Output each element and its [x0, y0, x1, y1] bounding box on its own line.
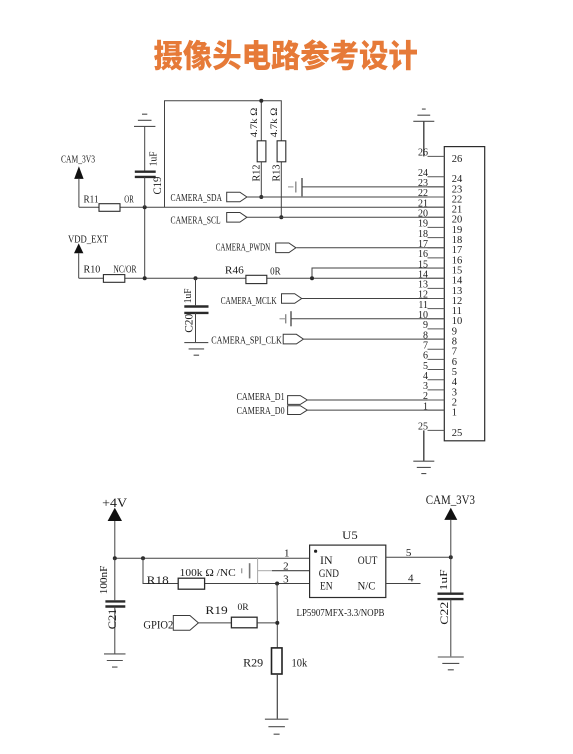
- wire R46 to pin15: [310, 268, 444, 280]
- wire N/C stub: [386, 583, 421, 585]
- svg-text:CAMERA_D1: CAMERA_D1: [237, 392, 285, 403]
- svg-text:4.7k Ω: 4.7k Ω: [250, 108, 260, 138]
- IC U5 LP5907 body: [310, 528, 386, 598]
- svg-text:0R: 0R: [270, 267, 281, 278]
- svg-text:GPIO2: GPIO2: [143, 618, 173, 632]
- svg-text:25: 25: [452, 428, 463, 439]
- port CAMERA_PWDN: [216, 242, 445, 253]
- connector pin 23: [418, 178, 462, 195]
- connector pin 16: [418, 249, 462, 266]
- connector pin 18: [418, 229, 462, 246]
- svg-text:1uF: 1uF: [183, 288, 194, 303]
- power flag +4V: [102, 495, 128, 558]
- svg-text:IN: IN: [320, 555, 333, 567]
- series capacitor (pin 10): [280, 311, 445, 326]
- connector pin 24: [418, 168, 463, 185]
- connector pin 14: [418, 269, 463, 286]
- connector pin 4: [423, 371, 458, 388]
- svg-text:LP5907MFX-3.3/NOPB: LP5907MFX-3.3/NOPB: [297, 608, 385, 619]
- svg-text:CAMERA_PWDN: CAMERA_PWDN: [216, 242, 271, 253]
- svg-text:CAMERA_D0: CAMERA_D0: [237, 406, 285, 417]
- resistor R19 0R: [205, 603, 277, 628]
- connector pin 7: [423, 340, 457, 357]
- port GPIO2: [143, 616, 231, 632]
- svg-text:VDD_EXT: VDD_EXT: [68, 234, 108, 246]
- U5 pin 4 label: [408, 573, 414, 585]
- svg-text:R19: R19: [205, 603, 227, 617]
- svg-text:R12: R12: [250, 165, 262, 182]
- connector pin 26: [418, 148, 462, 165]
- ground (below R29): [265, 719, 289, 734]
- svg-text:N/C: N/C: [358, 581, 376, 593]
- svg-text:100nF: 100nF: [99, 565, 110, 594]
- svg-text:26: 26: [452, 154, 463, 165]
- svg-text:R13: R13: [270, 164, 282, 181]
- connector pin 13: [418, 280, 462, 297]
- resistor R13 4.7k: [270, 108, 286, 220]
- resistor R46 0R: [225, 265, 281, 284]
- connector pin 9: [423, 320, 457, 337]
- connector pin 11: [418, 300, 462, 317]
- ground (below C21): [104, 654, 126, 667]
- series capacitor (GND row): [242, 563, 250, 578]
- U5 pin 3 label: [283, 574, 289, 586]
- power flag CAM_3V3: [61, 155, 95, 208]
- svg-text:CAMERA_SPI_CLK: CAMERA_SPI_CLK: [211, 336, 282, 347]
- svg-text:C21: C21: [105, 609, 119, 630]
- svg-text:U5: U5: [342, 528, 358, 542]
- wire U5 GND link: [258, 557, 310, 583]
- svg-text:3: 3: [283, 574, 289, 586]
- port CAMERA_D0: [237, 406, 445, 417]
- resistor R11 0R: [79, 193, 444, 211]
- wire C20 branch: [194, 276, 198, 305]
- svg-text:C19: C19: [152, 176, 164, 194]
- U5 pin 1 label: [284, 548, 290, 560]
- svg-text:100k Ω /NC: 100k Ω /NC: [180, 567, 236, 579]
- port CAMERA_MCLK: [221, 294, 445, 307]
- connector J1 body: [444, 147, 484, 441]
- svg-text:CAMERA_SCL: CAMERA_SCL: [171, 215, 221, 226]
- series capacitor (pin 23): [288, 178, 444, 196]
- capacitor C22 1uF: [437, 557, 464, 656]
- U5 pin 5 label: [406, 547, 412, 559]
- connector pin 12: [418, 290, 462, 307]
- svg-text:R18: R18: [147, 573, 169, 587]
- svg-text:NC/OR: NC/OR: [113, 264, 136, 275]
- svg-text:R29: R29: [243, 655, 263, 669]
- svg-text:1: 1: [284, 548, 290, 560]
- wire top pull-up loop: [165, 99, 282, 208]
- resistor R12 4.7k: [250, 108, 266, 199]
- svg-text:R46: R46: [225, 265, 244, 277]
- connector pin 1: [423, 401, 457, 418]
- svg-text:CAMERA_SDA: CAMERA_SDA: [171, 193, 223, 204]
- capacitor C21 100nF: [99, 558, 126, 653]
- port CAMERA_SPI_CLK: [211, 334, 444, 346]
- svg-text:C22: C22: [437, 602, 451, 625]
- svg-text:CAMERA_MCLK: CAMERA_MCLK: [221, 296, 277, 307]
- connector pin 10: [418, 310, 462, 327]
- U5 pin 2 label: [283, 560, 289, 572]
- svg-text:C20: C20: [184, 314, 196, 333]
- port CAMERA_SDA: [171, 192, 445, 204]
- ground (below pin 25): [413, 430, 434, 473]
- svg-text:GND: GND: [319, 568, 339, 580]
- svg-text:1uF: 1uF: [438, 569, 450, 590]
- wire +4V rail: [113, 556, 310, 560]
- resistor R29 10k: [243, 648, 307, 719]
- ground (above pin 26): [413, 109, 434, 156]
- svg-text:CAM_3V3: CAM_3V3: [426, 492, 475, 507]
- ground (below C20): [184, 343, 208, 356]
- power flag CAM_3V3 (output): [426, 492, 475, 557]
- svg-text:10k: 10k: [292, 655, 308, 669]
- svg-text:26: 26: [418, 148, 428, 159]
- svg-text:+4V: +4V: [102, 495, 128, 510]
- connector pin 5: [423, 361, 457, 378]
- label LP5907MFX-3.3/NOPB: [297, 608, 385, 619]
- svg-text:CAM_3V3: CAM_3V3: [61, 155, 95, 166]
- svg-text:R10: R10: [84, 263, 101, 275]
- svg-text:EN: EN: [320, 581, 333, 593]
- svg-text:1: 1: [423, 401, 428, 412]
- connector pin 22: [418, 188, 462, 205]
- connector pin 25: [418, 422, 462, 439]
- connector pin 8: [423, 330, 457, 347]
- connector pin 3: [423, 381, 457, 398]
- wire OUT to CAM_3V3: [386, 555, 453, 559]
- svg-text:OUT: OUT: [358, 555, 378, 567]
- connector pin 17: [418, 239, 462, 256]
- power flag VDD_EXT: [68, 234, 108, 279]
- port CAMERA_D1: [237, 392, 445, 404]
- svg-text:0R: 0R: [238, 603, 250, 613]
- resistor R10 NC/OR: [79, 263, 445, 282]
- wire EN branch: [275, 582, 279, 648]
- capacitor C19 1uF: [135, 151, 164, 207]
- title text 摄像头电路参考设计: [154, 39, 417, 70]
- svg-text:4.7k Ω: 4.7k Ω: [270, 108, 280, 138]
- svg-text:2: 2: [283, 560, 289, 572]
- wire rail tie: [143, 205, 147, 280]
- svg-text:25: 25: [418, 422, 428, 433]
- resistor R18 100k/NC: [143, 558, 310, 589]
- svg-text:1uF: 1uF: [149, 151, 160, 166]
- connector pin 2: [423, 391, 457, 408]
- ground (above C19): [134, 114, 155, 170]
- svg-text:4: 4: [408, 573, 414, 585]
- connector pin 19: [418, 219, 462, 236]
- connector pin 20: [418, 209, 462, 226]
- svg-text:1: 1: [452, 408, 457, 419]
- svg-text:OR: OR: [124, 194, 134, 205]
- connector pin 21: [418, 198, 462, 215]
- ground (below C22): [438, 657, 464, 670]
- connector pin 6: [423, 351, 457, 368]
- port CAMERA_SCL: [171, 213, 445, 227]
- svg-text:R11: R11: [84, 193, 99, 205]
- connector pin 15: [418, 259, 462, 276]
- capacitor C20 1uF: [183, 288, 209, 342]
